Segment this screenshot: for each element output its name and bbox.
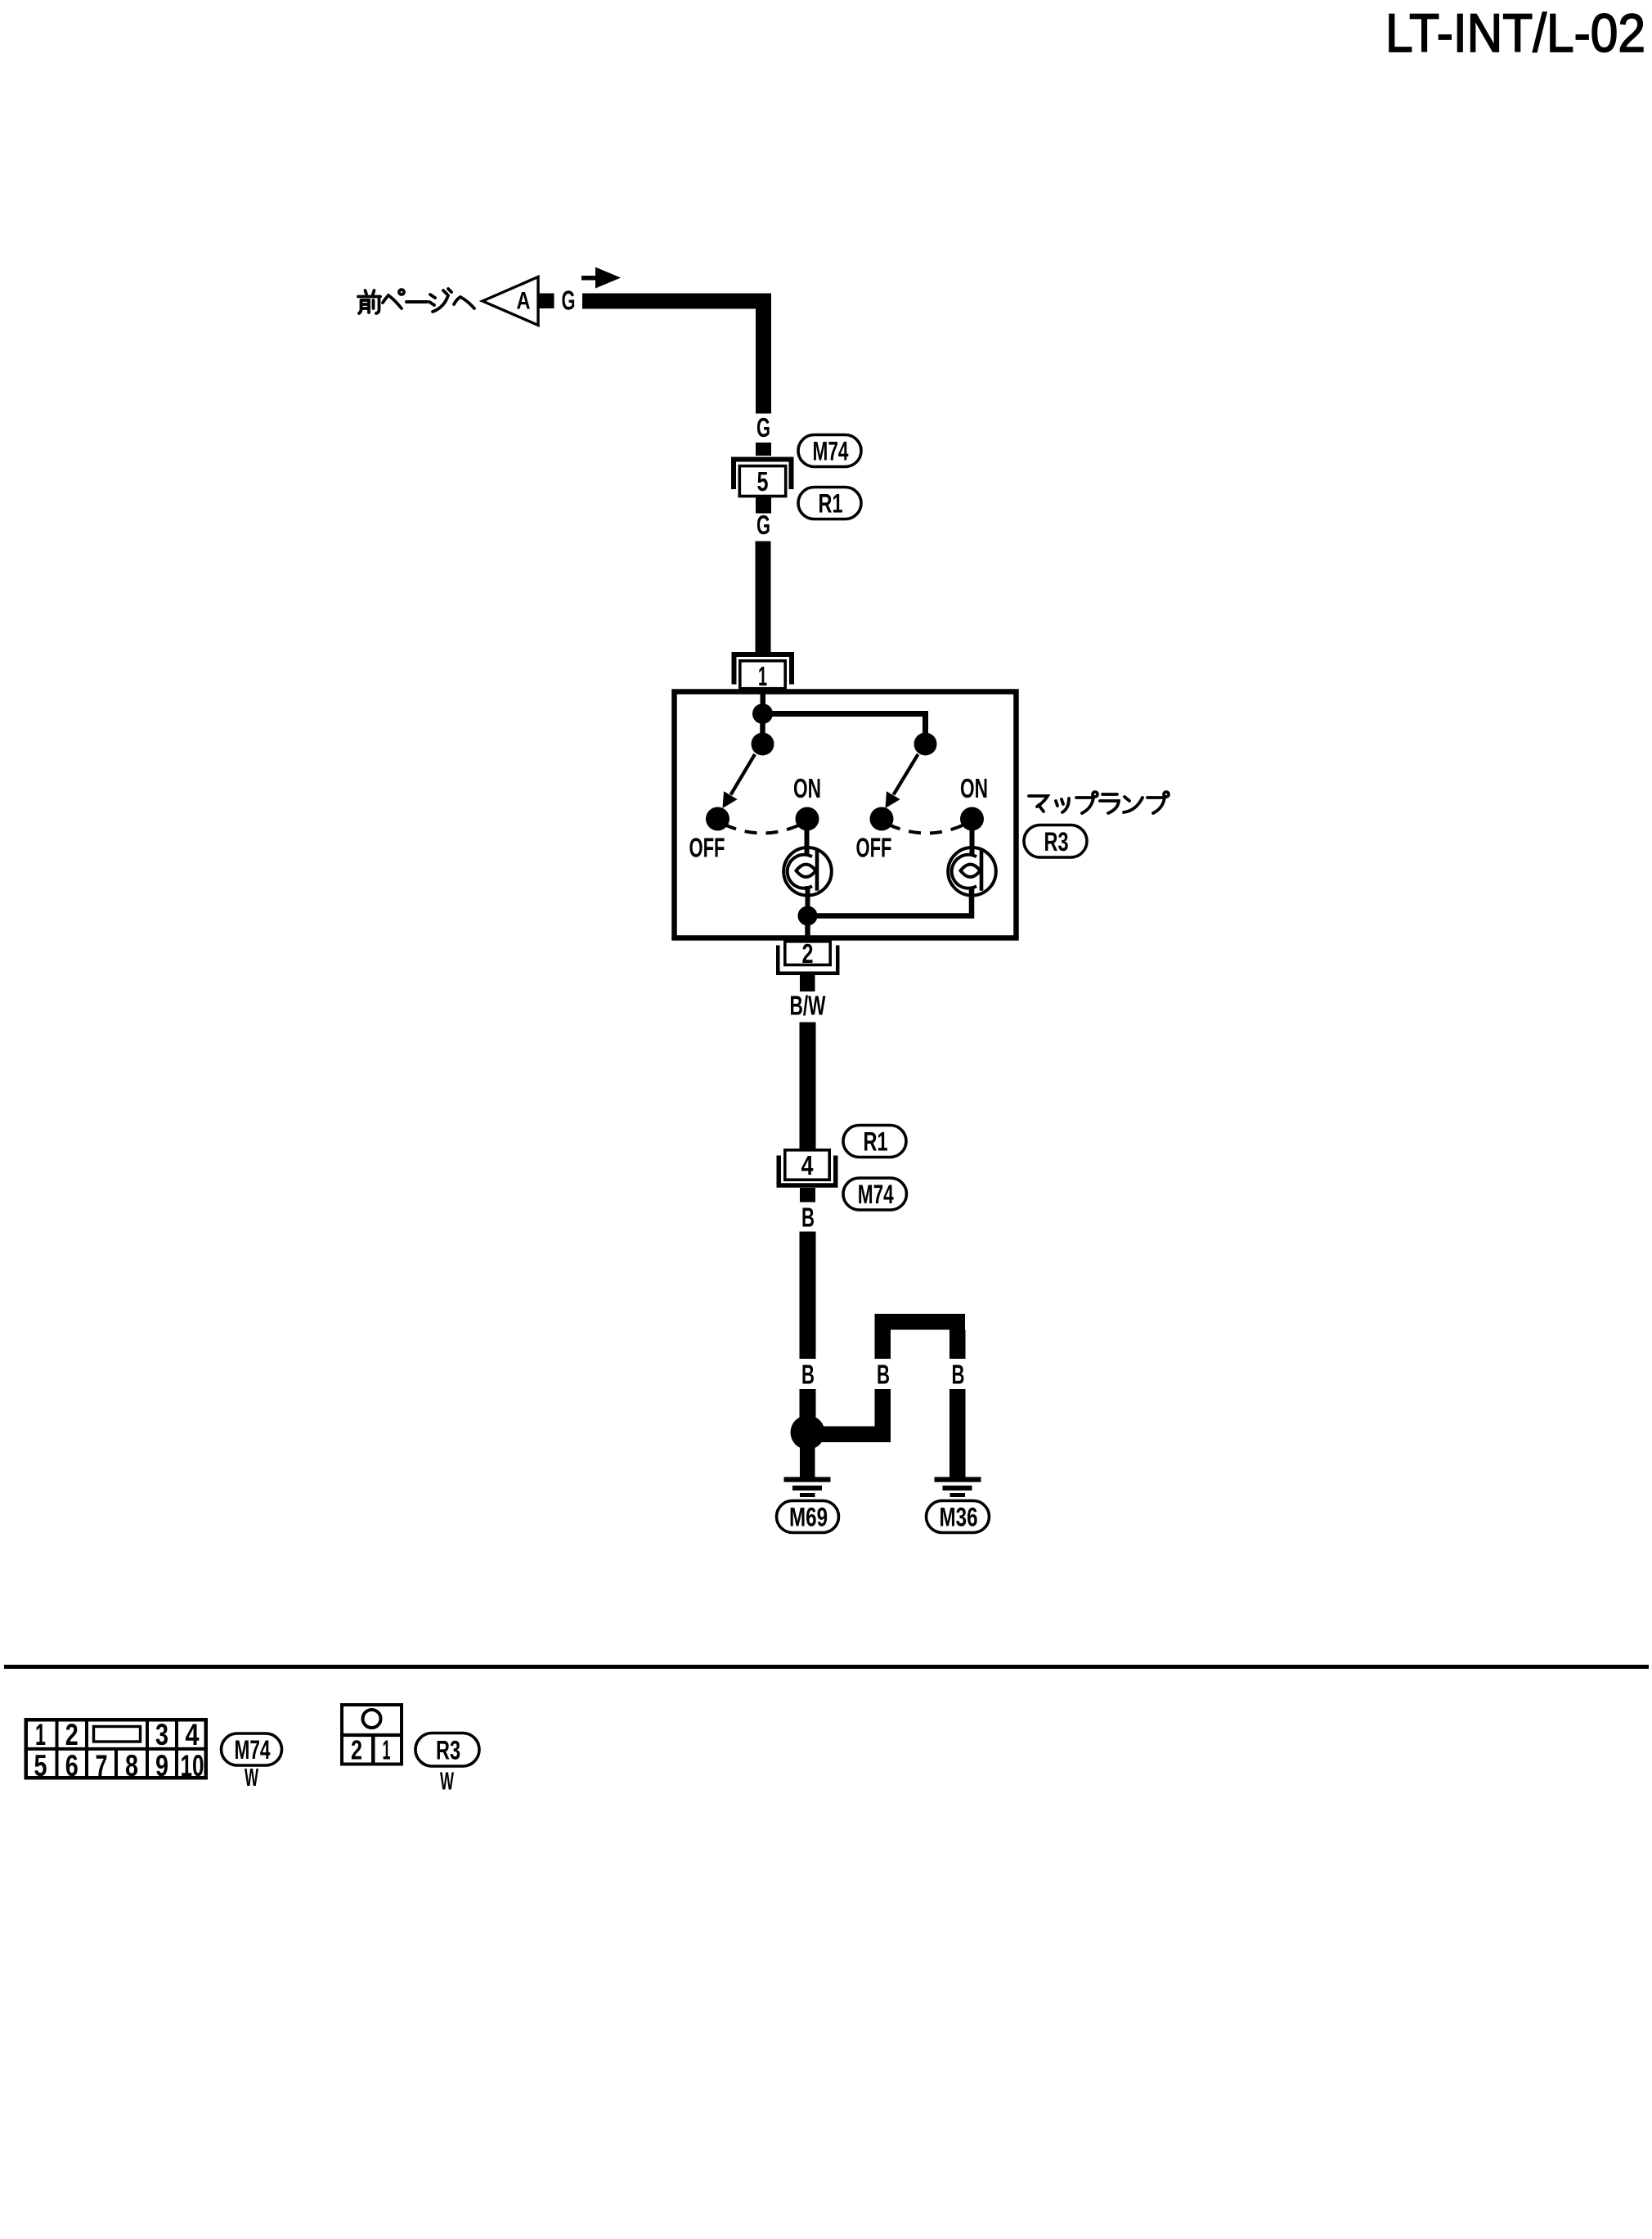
svg-text:A: A — [517, 288, 531, 315]
junction node dot — [752, 704, 773, 724]
map lamp terminal 1 bracket — [734, 654, 792, 685]
off-page connector triangle A — [483, 277, 538, 326]
svg-text:LT-INT/L-02: LT-INT/L-02 — [1385, 2, 1645, 63]
svg-text:R3: R3 — [1044, 827, 1069, 856]
ground id oval M69 — [777, 1501, 839, 1533]
connector id oval M74 (lower) — [843, 1178, 907, 1210]
connector symbol pin 5 bracket — [734, 460, 792, 490]
svg-text:R1: R1 — [864, 1127, 888, 1157]
bottom junction dot — [798, 906, 818, 926]
terminal 2 stub — [800, 975, 815, 991]
svg-text:2: 2 — [65, 1718, 79, 1751]
branch right leg upper — [949, 1330, 966, 1360]
svg-text:7: 7 — [96, 1749, 108, 1783]
label 前ページへ (to previous page) — [358, 289, 474, 313]
connector face M74 column dividers — [57, 1718, 177, 1780]
svg-text:B: B — [877, 1360, 890, 1390]
wire G horizontal segment — [582, 294, 771, 309]
connector face id oval M74 — [222, 1733, 282, 1765]
svg-text:1: 1 — [758, 661, 767, 691]
svg-text:3: 3 — [155, 1718, 168, 1751]
left switch throw dashed arc — [725, 825, 801, 834]
right switch throw dashed arc — [889, 825, 965, 834]
connector symbol pin 4 bracket — [779, 1156, 836, 1186]
svg-text:2: 2 — [802, 938, 814, 969]
svg-text:R1: R1 — [819, 489, 843, 519]
wire B/W — [800, 1023, 816, 1149]
wire right ON contact to bulb — [970, 825, 975, 854]
wire node to left switch pivot — [760, 720, 765, 735]
branch left leg lower — [875, 1389, 891, 1442]
map lamp terminal 2 bracket — [778, 946, 837, 973]
connector face R3 dividers — [340, 1733, 403, 1737]
connector id oval R1 — [798, 488, 861, 519]
svg-text:2: 2 — [351, 1735, 362, 1765]
map lamp terminal 2 box — [785, 942, 830, 965]
wire G to map lamp — [756, 542, 771, 653]
connector face M74 row divider — [25, 1747, 209, 1751]
svg-text:ON: ON — [793, 773, 821, 803]
connector face view R3 outline — [342, 1705, 402, 1765]
map lamp terminal 1 box — [740, 661, 785, 689]
component id oval R3 — [1024, 825, 1087, 858]
wire stub below connector 4 — [800, 1188, 815, 1203]
left map lamp bulb — [783, 847, 832, 896]
svg-text:M74: M74 — [813, 437, 849, 466]
svg-text:8: 8 — [125, 1749, 138, 1783]
wire stub below connector 5 — [756, 497, 771, 514]
svg-text:1: 1 — [35, 1718, 46, 1751]
svg-text:B: B — [801, 1360, 815, 1390]
branch top bar — [875, 1314, 966, 1330]
connector A stub — [538, 294, 554, 309]
svg-text:5: 5 — [757, 466, 769, 497]
link wire junction to right bulb — [808, 888, 972, 916]
branch wire horizontal — [822, 1427, 891, 1443]
svg-text:1: 1 — [383, 1735, 391, 1765]
svg-text:6: 6 — [65, 1749, 79, 1783]
svg-text:5: 5 — [34, 1749, 47, 1783]
right map lamp bulb — [948, 847, 996, 896]
branch left leg upper — [875, 1330, 891, 1360]
svg-text:W: W — [440, 1767, 454, 1796]
wire B upper segment — [800, 1232, 816, 1360]
connector symbol pin 5 box — [739, 466, 785, 497]
connector id oval M74 — [798, 435, 861, 467]
splice dot — [791, 1415, 825, 1450]
map lamp component box outline — [675, 692, 1017, 938]
connector face view M74 outline — [26, 1720, 206, 1778]
left OFF contact dot — [706, 807, 729, 831]
connector id oval R1 (lower) — [843, 1126, 906, 1158]
wire B lower segment — [800, 1389, 816, 1435]
svg-text:OFF: OFF — [689, 833, 725, 863]
flow direction arrow — [581, 276, 599, 281]
svg-text:M36: M36 — [940, 1503, 978, 1532]
svg-text:G: G — [756, 412, 770, 443]
svg-text:W: W — [245, 1763, 258, 1792]
splice stub to ground — [800, 1448, 815, 1477]
wire junction to terminal 2 — [805, 924, 810, 938]
branch right leg lower — [949, 1389, 966, 1477]
section separator line — [4, 1665, 1649, 1669]
right ON contact dot — [960, 807, 984, 831]
svg-text:10: 10 — [181, 1749, 204, 1783]
right OFF contact dot — [870, 807, 894, 831]
wire terminal1 to node — [761, 694, 766, 705]
svg-text:9: 9 — [155, 1749, 168, 1783]
wire stub above connector 5 — [756, 443, 771, 456]
branch wire to right switch — [767, 714, 926, 734]
svg-text:M74: M74 — [235, 1735, 271, 1765]
component label マップランプ (map lamp) — [1029, 792, 1169, 813]
wire left ON contact to bulb — [805, 825, 810, 854]
ground symbol M69 — [784, 1477, 831, 1482]
connector face M74 key slot — [94, 1727, 141, 1742]
svg-text:B: B — [952, 1360, 965, 1390]
wire left bulb to junction — [806, 886, 810, 925]
left ON contact dot — [796, 807, 819, 831]
svg-text:OFF: OFF — [856, 833, 892, 863]
svg-text:B/W: B/W — [790, 991, 827, 1021]
svg-text:M69: M69 — [789, 1503, 828, 1532]
svg-text:G: G — [756, 510, 770, 540]
svg-text:G: G — [562, 285, 576, 316]
connector symbol pin 4 box — [785, 1150, 829, 1180]
svg-text:B: B — [801, 1203, 815, 1233]
right switch pivot dot — [914, 733, 937, 756]
right switch arm arrow — [894, 754, 918, 795]
connector face id oval R3 — [415, 1733, 479, 1767]
svg-text:R3: R3 — [436, 1735, 460, 1765]
ground symbol M36 — [935, 1477, 981, 1482]
left switch pivot dot — [752, 733, 774, 756]
connector face R3 key circle — [363, 1710, 381, 1728]
wire G vertical segment — [756, 294, 771, 414]
ground id oval M36 — [927, 1501, 990, 1533]
left switch arm arrow — [731, 754, 756, 795]
svg-text:4: 4 — [801, 1150, 815, 1180]
svg-text:4: 4 — [186, 1718, 200, 1751]
svg-text:M74: M74 — [858, 1180, 894, 1209]
svg-text:ON: ON — [960, 773, 988, 803]
